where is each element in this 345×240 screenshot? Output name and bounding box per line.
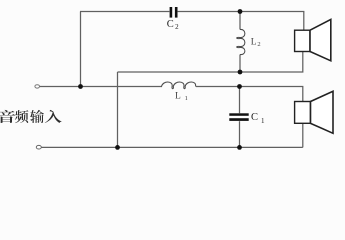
- terminal input minus: [36, 145, 41, 149]
- inductor L2: [237, 29, 245, 54]
- wire input plus: [40, 86, 163, 88]
- speaker tweeter horn: [310, 19, 331, 60]
- svg-text:L2: L2: [251, 37, 261, 48]
- wire L2 bottom lead: [239, 55, 241, 73]
- speaker tweeter driver: [295, 30, 310, 51]
- wire tweeter return: [118, 52, 303, 73]
- label audio input (音频输入): [0, 110, 62, 123]
- wire top rail right of C2: [178, 11, 305, 13]
- wire C1 branch upper: [239, 87, 241, 114]
- wire L2 top lead: [239, 12, 241, 30]
- speaker woofer driver: [295, 102, 311, 124]
- node junction at input riser: [78, 84, 83, 89]
- node junction return downlead: [115, 145, 120, 150]
- wire tweeter return downlead: [117, 72, 119, 147]
- wire L1 to woofer: [196, 87, 303, 102]
- svg-text:C2: C2: [167, 19, 179, 31]
- svg-text:L1: L1: [175, 91, 188, 102]
- inductor L1: [162, 82, 196, 89]
- svg-text:C1: C1: [251, 112, 265, 125]
- wire woofer return: [302, 123, 304, 147]
- speaker woofer horn: [311, 91, 334, 133]
- wire left vertical riser: [80, 12, 82, 87]
- wire C1 branch lower: [239, 121, 241, 147]
- capacitor C2: [170, 7, 178, 18]
- node junction C1 bottom: [237, 145, 242, 150]
- terminal input plus: [35, 85, 40, 88]
- wire tweeter feed drop: [303, 12, 305, 31]
- wire top rail left of C2: [80, 11, 169, 13]
- wire bottom rail: [42, 146, 303, 148]
- node junction C1 top: [237, 84, 242, 89]
- node junction L2 bottom: [238, 70, 243, 75]
- capacitor C1: [229, 113, 248, 121]
- node junction L2 top: [238, 9, 243, 14]
